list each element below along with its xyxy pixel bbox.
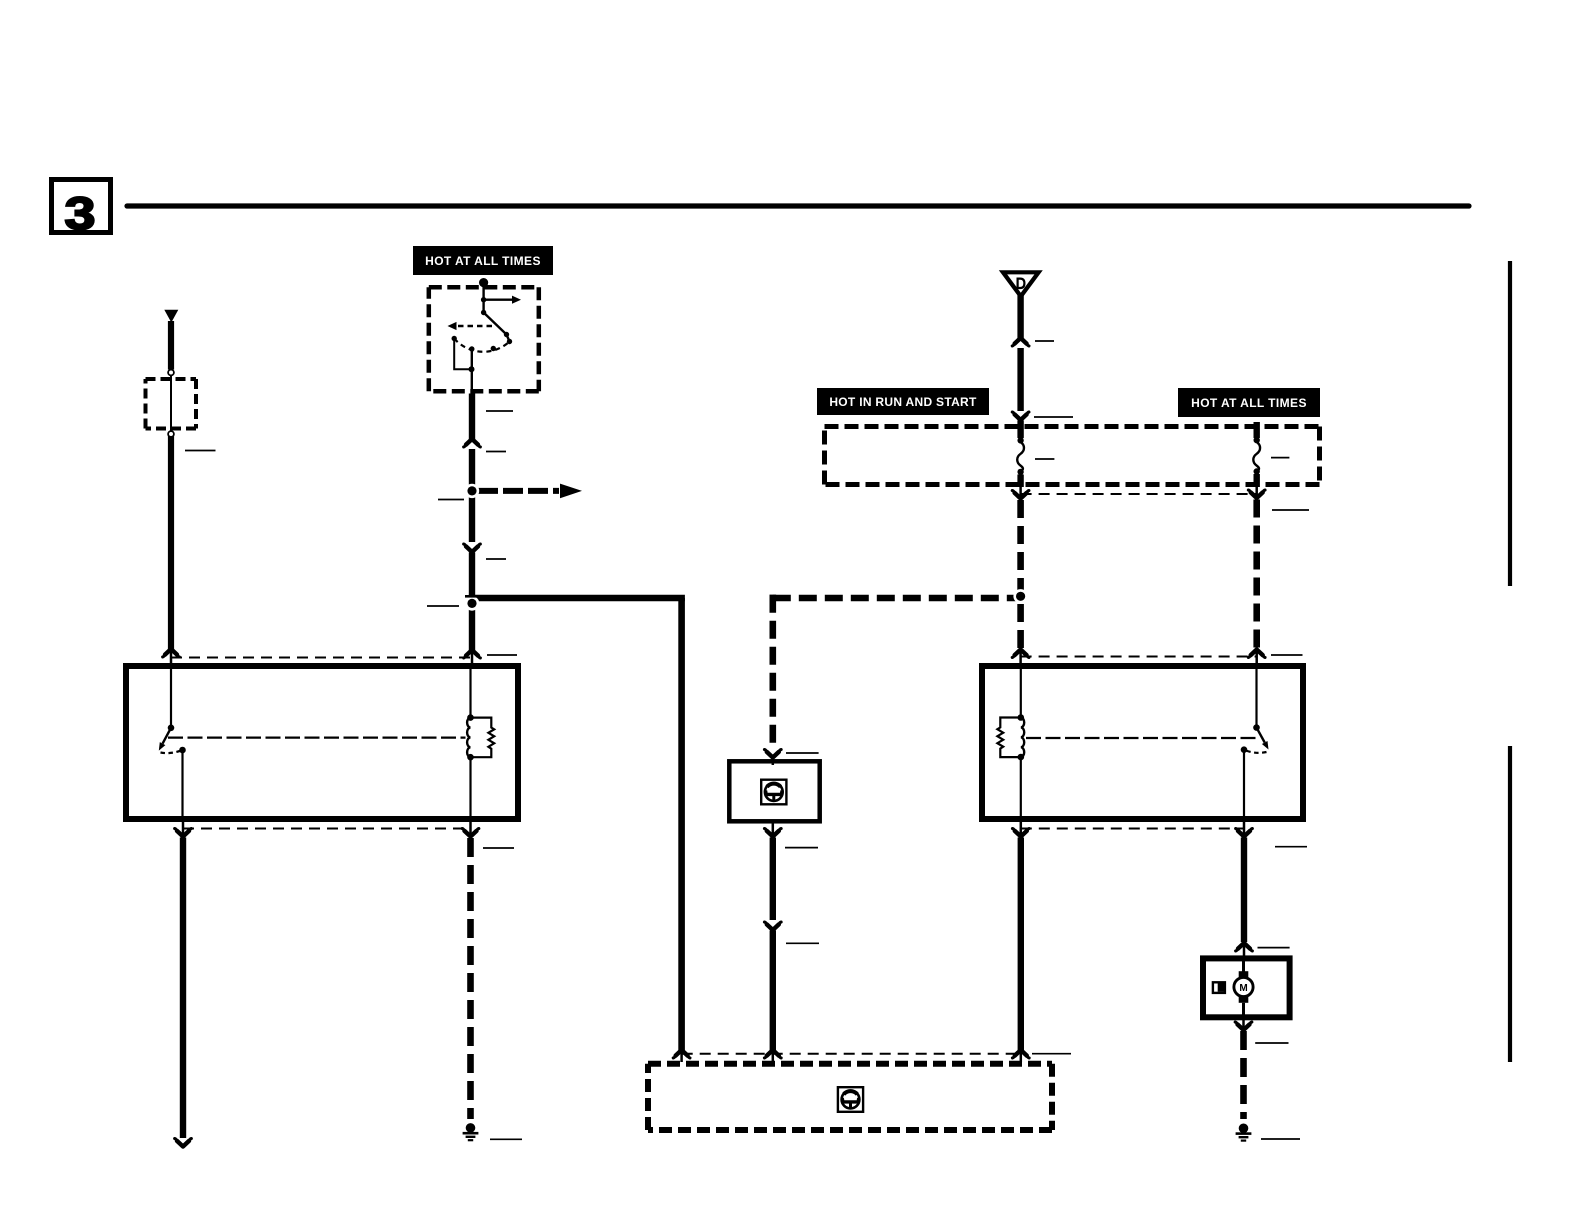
connector chevron into right relay box <box>1012 650 1029 658</box>
ignition switch: supply node dot <box>479 278 488 287</box>
right margin bar lower <box>1508 746 1512 1062</box>
left relay: coil output line <box>469 757 471 819</box>
ground symbol right <box>1236 1124 1252 1141</box>
wire label line <box>483 847 514 849</box>
wire: ignition feed seg2 <box>469 449 475 542</box>
wire stub below motor box <box>1242 1017 1245 1028</box>
ignition switch: blade <box>484 313 513 345</box>
wire: dashed hot feed <box>1253 500 1260 653</box>
wire: left feed lower <box>168 436 174 651</box>
ignition switch: start contact L-link <box>454 339 471 370</box>
motor: position icon square <box>1213 982 1225 993</box>
wire label line <box>487 654 517 656</box>
left relay: coil input line <box>469 666 471 718</box>
wire stub into motor box <box>1243 945 1246 958</box>
svg-text:HOT IN RUN AND START: HOT IN RUN AND START <box>829 395 977 409</box>
right relay: coil top dot <box>1018 714 1025 721</box>
connector dashed line below left relay box <box>183 828 471 830</box>
right relay: coil loops <box>1021 718 1024 758</box>
fuse 1 element <box>1017 442 1024 471</box>
right relay: coil input line <box>1020 666 1022 718</box>
wire: motor feed <box>1241 838 1247 943</box>
connector chevron below left relay box (right) <box>462 829 479 837</box>
wire: ground wire dashed <box>467 838 474 1119</box>
left relay: coil output stub below box <box>469 822 472 835</box>
right relay: contact dashed curve <box>1244 750 1267 753</box>
inline fusible link wire (thin) <box>170 370 172 437</box>
connector chevron into left relay box <box>464 650 481 658</box>
wire label line <box>427 605 459 607</box>
branch dashed arrow to right <box>478 484 582 499</box>
wire label line <box>1271 654 1303 656</box>
motor: body circle <box>1234 977 1253 996</box>
connector chevron below panel <box>1248 490 1265 498</box>
connector chevron below left relay box (left) <box>175 829 192 837</box>
ignition switch: arc contact dots <box>452 336 457 341</box>
right relay: coil output stub below box <box>1020 822 1023 835</box>
off-page triangle (power feed) <box>164 310 178 323</box>
wire: left output down <box>180 838 186 1139</box>
connector chevron mid <box>764 922 781 930</box>
wire: tee branch horizontal <box>469 595 685 602</box>
wire label line <box>1258 947 1290 949</box>
fuse 2 bottom dot <box>1254 468 1260 474</box>
svg-text:HOT AT ALL TIMES: HOT AT ALL TIMES <box>1191 396 1307 410</box>
right relay: switch blade with arrowhead <box>1257 728 1269 750</box>
terminal circle bottom <box>168 431 174 437</box>
wire label line <box>1255 1042 1288 1044</box>
ignition switch: pivot dot <box>481 310 486 315</box>
wire label line <box>486 558 506 560</box>
ignition switch: position arc (dashed) <box>454 339 509 352</box>
left relay: switch blade with arrowhead <box>159 728 171 751</box>
wire: into fuse panel <box>1017 421 1023 439</box>
right relay box <box>982 666 1303 819</box>
connector chevron into clock box <box>764 750 781 758</box>
wire: left feed upper <box>168 321 174 370</box>
fuse 2 top dot <box>1254 437 1260 443</box>
corner patch <box>770 595 777 602</box>
svg-text:M: M <box>1239 983 1247 994</box>
right relay: switch input line <box>1255 666 1257 728</box>
wire: fuse 2 output <box>1253 474 1259 487</box>
wire stub below clock box <box>772 821 775 835</box>
junction ring <box>1013 589 1027 603</box>
connector chevron above fuse panel <box>1012 412 1029 420</box>
wire: ignition feed seg3 <box>469 553 475 653</box>
left relay: actuation dashed line <box>168 736 466 738</box>
wire stub into right relay box <box>1019 652 1022 667</box>
wire label line <box>786 942 819 944</box>
wire: fuse 1 output <box>1017 475 1023 488</box>
fuse panel dashed box <box>825 427 1320 485</box>
wire label line <box>185 450 216 452</box>
wire label line <box>438 499 464 501</box>
steering wheel icon in bottom module <box>838 1087 863 1112</box>
wire: right box left output down <box>1018 838 1024 1053</box>
ignition switch dashed box <box>429 287 539 391</box>
svg-text:HOT AT ALL TIMES: HOT AT ALL TIMES <box>425 254 541 268</box>
connector dashed line above bottom module <box>682 1053 1021 1055</box>
right relay: switch contact dot <box>1241 746 1248 753</box>
wire: D feed seg1 <box>1017 295 1023 340</box>
right relay: switch output line <box>1243 750 1245 819</box>
connector chevron <box>464 544 481 552</box>
left relay: contact dashed curve <box>161 750 183 753</box>
bottom module dashed box <box>648 1064 1052 1130</box>
terminal circle top <box>168 370 174 376</box>
wire: fuse 2 input stub <box>1253 422 1259 438</box>
connector chevron below motor box <box>1235 1022 1252 1030</box>
ground symbol left <box>463 1123 479 1140</box>
wire label line <box>486 451 506 453</box>
fuse 1 label line <box>1035 458 1054 460</box>
wire: motor ground dashed <box>1240 1031 1247 1119</box>
wire stub into clock box <box>772 757 775 765</box>
right relay: actuation dashed line <box>1026 737 1260 739</box>
left relay: switch output line <box>181 750 183 819</box>
label line right of chevron <box>786 752 819 754</box>
left relay: switch input line <box>170 666 172 728</box>
right relay: coil output line <box>1020 757 1022 819</box>
left relay: coil top dot <box>467 714 474 721</box>
ignition switch: supply stem <box>482 283 484 313</box>
fuse 1 bottom dot <box>1017 469 1023 475</box>
wire: dashed branch vertical <box>769 595 776 749</box>
page number box "3" <box>52 180 111 240</box>
fusible link dashed box <box>146 379 197 429</box>
label line right of bottom module connector <box>1032 1053 1071 1055</box>
connector dashed line above left relay box <box>171 657 472 659</box>
label plate HOT IN RUN AND START <box>817 388 989 415</box>
connector chevron below panel <box>1012 491 1029 499</box>
label plate HOT AT ALL TIMES (left) <box>413 246 553 275</box>
stub below panel <box>1255 487 1258 496</box>
junction ring <box>465 484 479 498</box>
wire label line <box>486 410 513 412</box>
connector chevron into bottom module <box>673 1050 690 1058</box>
fuse 1 top dot <box>1017 437 1023 443</box>
connector dashed line below right relay box <box>1021 828 1244 830</box>
wire stub into left relay box <box>471 652 474 666</box>
wire: dashed branch horizontal <box>773 595 1017 602</box>
wire end curl <box>175 1139 192 1147</box>
off-page triangle connector D <box>1003 272 1039 296</box>
ignition switch: OFF dashed arrow <box>448 322 493 330</box>
wire: dashed run/start feed <box>1017 500 1024 652</box>
ground label line <box>1261 1138 1300 1140</box>
right margin bar upper <box>1508 261 1512 586</box>
motor box <box>1203 958 1290 1017</box>
wire: ignition feed seg1 <box>469 394 475 442</box>
connector chevron into right relay box <box>1248 650 1265 658</box>
left relay: coil loops <box>467 718 470 758</box>
right relay: switch output stub below box <box>1243 822 1246 835</box>
left relay: coil bottom dot <box>467 754 474 761</box>
connector chevron into left relay box <box>163 649 180 657</box>
wire: center output seg1 <box>770 838 776 921</box>
wire stub into bottom module <box>680 1052 683 1062</box>
fuse 2 label line <box>1271 457 1289 459</box>
ignition switch: junction dot <box>469 366 475 372</box>
motor: input line <box>1242 958 1245 971</box>
connector chevron below clock box <box>764 829 781 837</box>
top rule line <box>127 203 1469 208</box>
left relay: switch contact dot <box>179 747 186 754</box>
right relay: coil bottom dot <box>1018 754 1025 761</box>
wire stub into bottom module <box>772 1052 775 1062</box>
steering wheel icon in clock box <box>761 780 786 805</box>
wire label line <box>1272 509 1309 511</box>
ignition switch: run output line <box>471 349 473 394</box>
right relay: coil resistor frame <box>997 718 1020 758</box>
connector chevron <box>464 439 481 447</box>
connector chevron into motor box <box>1236 943 1253 951</box>
wire: long drop to bottom module <box>678 598 685 1052</box>
left relay: coil resistor frame <box>471 718 495 758</box>
wire label line <box>1275 846 1307 848</box>
ignition switch: ACC arrow <box>481 296 521 304</box>
connector chevron below right relay box (left) <box>1012 829 1029 837</box>
wire label line <box>1034 416 1073 418</box>
svg-text:3: 3 <box>65 188 96 239</box>
wire label line <box>785 847 818 849</box>
junction ring at tee <box>465 596 480 611</box>
wire stub into right relay box <box>1255 652 1258 667</box>
wire: D feed seg2 <box>1017 348 1023 411</box>
fuse 2 element <box>1253 442 1260 471</box>
connector chevron into bottom module <box>764 1050 781 1058</box>
ground label line <box>490 1138 522 1140</box>
left relay: switch pivot dot <box>168 725 175 732</box>
right relay: switch pivot dot <box>1253 724 1260 731</box>
wire label line <box>1035 340 1054 342</box>
clock module box <box>729 761 819 821</box>
connector chevron <box>1012 338 1029 346</box>
connector chevron below right relay box (right) <box>1236 829 1253 837</box>
motor: output line <box>1242 1003 1245 1018</box>
connector dashed line below fuse panel <box>1021 493 1257 495</box>
wire stub into left relay box <box>170 651 173 666</box>
left relay: switch output stub below box <box>182 822 185 835</box>
connector chevron into bottom module <box>1012 1050 1029 1058</box>
label plate HOT AT ALL TIMES (right) <box>1178 388 1320 417</box>
motor: top brush <box>1239 971 1249 978</box>
motor: bottom brush <box>1239 996 1249 1003</box>
stub below panel <box>1019 487 1022 496</box>
wire: center output seg2 <box>770 931 776 1053</box>
connector dashed line above right relay box <box>1021 656 1257 658</box>
wire stub into bottom module <box>1020 1052 1023 1062</box>
left relay box <box>126 666 518 819</box>
